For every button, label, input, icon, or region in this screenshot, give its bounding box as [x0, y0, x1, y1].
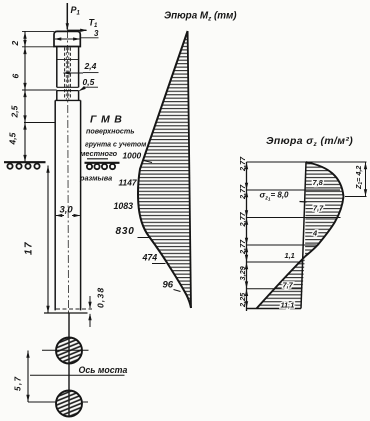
svg-text:σz1= 8,0: σz1= 8,0 — [260, 190, 290, 202]
svg-text:474: 474 — [142, 253, 158, 263]
svg-text:7,7: 7,7 — [283, 281, 294, 290]
svg-text:местного: местного — [80, 149, 118, 158]
svg-text:Эпюра σz (т/м²): Эпюра σz (т/м²) — [266, 136, 353, 148]
svg-text:1,1: 1,1 — [285, 251, 295, 260]
svg-text:2,25: 2,25 — [238, 292, 247, 308]
svg-text:5,7: 5,7 — [14, 375, 23, 391]
svg-text:ГМВ: ГМВ — [90, 114, 126, 126]
svg-text:2,4: 2,4 — [84, 61, 97, 71]
svg-text:17: 17 — [24, 241, 35, 255]
svg-text:7,8: 7,8 — [313, 178, 324, 187]
svg-text:3,29: 3,29 — [238, 265, 247, 280]
svg-text:1000: 1000 — [123, 151, 142, 161]
svg-text:0,5: 0,5 — [83, 77, 95, 87]
svg-text:2: 2 — [10, 41, 20, 47]
svg-text:830: 830 — [116, 226, 135, 237]
svg-text:Z1= 4,2: Z1= 4,2 — [354, 166, 364, 190]
svg-text:Эпюра Мz (тм): Эпюра Мz (тм) — [164, 11, 237, 23]
svg-text:96: 96 — [163, 280, 174, 291]
svg-text:Ось моста: Ось моста — [79, 365, 128, 375]
svg-text:4: 4 — [312, 229, 317, 238]
svg-text:11,1: 11,1 — [281, 301, 295, 310]
svg-text:2,77: 2,77 — [238, 211, 247, 227]
svg-text:T1: T1 — [89, 18, 99, 30]
svg-text:7,7: 7,7 — [313, 204, 324, 213]
svg-text:2,77: 2,77 — [238, 184, 247, 200]
svg-text:1147: 1147 — [119, 178, 137, 188]
svg-text:1083: 1083 — [114, 201, 134, 211]
svg-text:размыва: размыва — [79, 174, 112, 183]
svg-text:P1: P1 — [71, 5, 81, 17]
svg-text:2,77: 2,77 — [238, 239, 247, 255]
svg-text:2,77: 2,77 — [238, 156, 247, 172]
svg-text:грунта с учетом: грунта с учетом — [85, 142, 147, 149]
svg-text:2,5: 2,5 — [10, 105, 20, 118]
svg-text:3,0: 3,0 — [60, 205, 74, 216]
svg-text:поверхность: поверхность — [86, 127, 135, 136]
svg-text:3: 3 — [94, 29, 99, 38]
svg-text:0,38: 0,38 — [96, 287, 106, 308]
svg-text:4,5: 4,5 — [8, 132, 18, 145]
svg-text:6: 6 — [11, 74, 21, 79]
